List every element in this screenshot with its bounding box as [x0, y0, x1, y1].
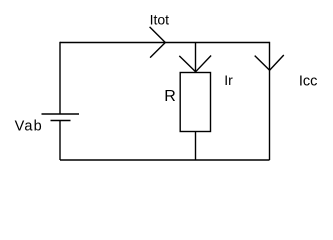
arrow Itot	[150, 27, 166, 58]
battery V1 long plate (+)	[42, 113, 80, 115]
svg-text:Vab: Vab	[15, 119, 43, 135]
wire middle branch upper	[195, 43, 197, 73]
resistor R body	[180, 73, 210, 132]
wire right branch	[269, 42, 271, 160]
wire left upper	[59, 42, 61, 114]
wire middle branch lower	[195, 132, 197, 161]
wire left lower	[59, 121, 61, 161]
arrow Icc	[255, 55, 284, 70]
svg-text:Itot: Itot	[150, 12, 170, 28]
svg-text:R: R	[164, 88, 176, 105]
wire top (node a)	[60, 42, 270, 44]
wire bottom (node b)	[60, 159, 270, 161]
svg-text:Icc: Icc	[299, 74, 318, 90]
arrow Ir	[179, 56, 211, 72]
svg-text:Ir: Ir	[224, 72, 233, 88]
battery V1 short plate (-)	[51, 120, 71, 122]
